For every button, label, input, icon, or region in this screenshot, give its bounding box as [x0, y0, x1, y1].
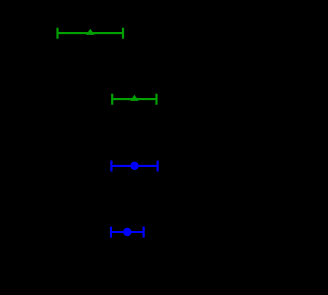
right cap [155, 94, 157, 105]
errorbar series2 point1 (blue circle) [111, 161, 157, 172]
circle marker [130, 162, 138, 170]
right cap [157, 161, 159, 172]
left cap [56, 28, 58, 39]
triangle marker [86, 29, 95, 35]
circle marker [123, 228, 131, 236]
errorbar series1 point2 (green triangle) [112, 94, 156, 105]
wire: horizontal error line [111, 165, 157, 167]
right cap [143, 227, 145, 238]
triangle marker [130, 95, 139, 101]
left cap [111, 94, 113, 105]
right cap [122, 28, 124, 39]
left cap [110, 161, 112, 172]
errorbar series1 point1 (green triangle) [58, 28, 124, 39]
errorbar series2 point2 (blue circle) [111, 227, 144, 238]
wire: horizontal error line [112, 98, 156, 100]
wire: horizontal error line [58, 32, 124, 34]
wire: horizontal error line [111, 231, 144, 233]
left cap [110, 227, 112, 238]
